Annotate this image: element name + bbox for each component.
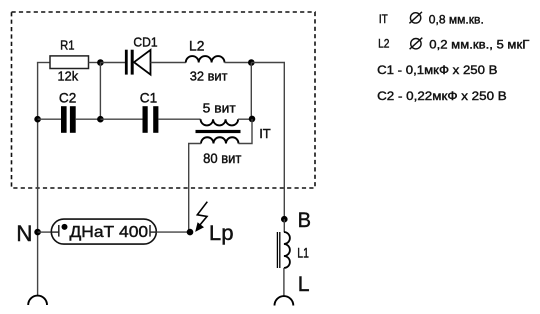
wire: C2 to node C xyxy=(76,118,101,120)
svg-text:L2: L2 xyxy=(378,37,390,51)
wire: lamp to Lp node xyxy=(156,231,190,233)
wire: R1 to node A xyxy=(89,62,101,64)
wire: CD1 to L2 xyxy=(151,62,186,64)
svg-text:5 вит: 5 вит xyxy=(203,101,236,116)
node A: junction R1 / CD1 / cap row xyxy=(97,59,104,66)
svg-text:C1: C1 xyxy=(140,89,158,105)
svg-text:R1: R1 xyxy=(60,38,74,53)
svg-text:C2: C2 xyxy=(59,89,77,105)
resistor R1 xyxy=(50,56,89,69)
node C: C2/C1 junction xyxy=(97,116,104,123)
wire: N node to lamp xyxy=(38,231,52,233)
diode CD1 xyxy=(125,50,151,75)
wire: left vertical riser (N line) xyxy=(37,63,39,296)
wire: node B right and down to terminal B xyxy=(251,63,284,220)
svg-text:0,8 мм.кв.: 0,8 мм.кв. xyxy=(429,12,484,26)
svg-text:C2 - 0,22мкФ x 250 В: C2 - 0,22мкФ x 250 В xyxy=(377,89,507,103)
lamp indicator dot xyxy=(62,224,68,230)
lamp right electrode xyxy=(150,225,156,237)
diameter symbol 2 xyxy=(410,38,423,50)
lamp ДНаТ 400 envelope xyxy=(51,219,156,244)
capacitor C1 xyxy=(143,106,159,133)
node Lp xyxy=(187,229,194,236)
wire: B node to L1 xyxy=(283,219,285,232)
wire: 80-turn winding left lead down to Lp node xyxy=(189,144,201,233)
svg-text:12k: 12k xyxy=(58,69,79,84)
inductor L1 (ballast choke) xyxy=(284,232,290,268)
svg-text:C1 - 0,1мкФ x 250 В: C1 - 0,1мкФ x 250 В xyxy=(377,63,497,77)
svg-text:L2: L2 xyxy=(189,38,204,53)
svg-text:ДНаТ 400: ДНаТ 400 xyxy=(70,224,149,241)
svg-text:L: L xyxy=(298,272,310,296)
transformer IT: 80-turn winding xyxy=(201,137,239,143)
lamp left electrode xyxy=(51,225,59,237)
svg-text:CD1: CD1 xyxy=(133,34,157,49)
svg-text:80 вит: 80 вит xyxy=(203,151,241,166)
wire: node A to CD1 xyxy=(100,62,125,64)
terminal contact L (bottom right hook) xyxy=(275,296,294,305)
inductor L2 xyxy=(186,56,225,62)
node B: L2 output junction xyxy=(248,59,255,66)
svg-text:L1: L1 xyxy=(297,246,309,261)
wire: node E to C2 xyxy=(38,118,61,120)
node N xyxy=(34,229,41,236)
svg-text:32 вит: 32 вит xyxy=(190,69,228,84)
wire: node D down and left to 80-turn winding xyxy=(239,119,253,144)
svg-text:B: B xyxy=(298,208,311,232)
svg-text:Lp: Lp xyxy=(209,222,234,245)
wire: R1 left lead xyxy=(37,62,50,64)
svg-text:IT: IT xyxy=(379,12,388,26)
legend line 1: IT wire gauge xyxy=(379,12,484,27)
svg-text:0,2 мм.кв., 5 мкГ: 0,2 мм.кв., 5 мкГ xyxy=(429,38,530,52)
svg-text:N: N xyxy=(16,221,32,246)
dashed enclosure (ignitor block) xyxy=(12,12,316,188)
terminal contact N (bottom left hook) xyxy=(28,296,47,305)
legend line 2: L2 wire gauge and inductance xyxy=(378,37,530,52)
ignition pulse lightning arrow xyxy=(195,202,207,232)
terminal node B xyxy=(281,216,288,223)
wire: L1 to bottom terminal xyxy=(283,268,285,296)
wire: 5-turn winding to node D xyxy=(238,118,252,120)
svg-text:IT: IT xyxy=(259,126,271,141)
wire: C1 to IT 5-turn winding xyxy=(158,118,200,120)
wire: node A down to node C xyxy=(99,63,101,120)
transformer IT: core xyxy=(196,130,241,133)
node D: IT windings tap xyxy=(249,116,256,123)
wire: riser node B to node D (IT tap) xyxy=(250,63,252,119)
wire: L2 to node B xyxy=(225,62,252,64)
node E: C2 left junction on N riser xyxy=(34,116,41,123)
diameter symbol 1 xyxy=(409,12,422,23)
transformer IT: 5-turn winding xyxy=(201,119,239,125)
capacitor C2 xyxy=(61,106,76,133)
inductor L1 core lines xyxy=(277,232,279,268)
wire: node C to C1 xyxy=(100,118,142,120)
